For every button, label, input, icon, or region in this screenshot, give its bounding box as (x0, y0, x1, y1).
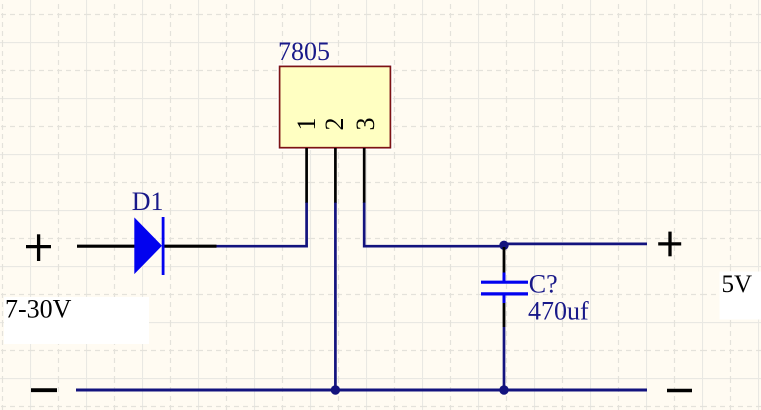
IC U1 7805 body (277, 64, 392, 150)
svg-text:C?: C? (529, 269, 558, 298)
terminal + (input) (26, 234, 51, 261)
svg-text:470uf: 470uf (528, 296, 589, 325)
C? top pin (503, 247, 506, 273)
svg-text:5V: 5V (722, 271, 753, 298)
input voltage label background (4, 297, 149, 344)
wire (217, 202, 307, 246)
diode D1 (134, 217, 163, 275)
wire (503, 327, 506, 390)
svg-text:7-30V: 7-30V (5, 294, 72, 323)
terminal - (input) (31, 388, 57, 392)
wire (364, 202, 504, 246)
terminal + (output) (658, 232, 681, 257)
junction node at pin2/bottom rail (331, 385, 340, 394)
svg-text:7805: 7805 (278, 37, 330, 66)
wire (504, 243, 647, 246)
junction node at C bottom (499, 385, 508, 394)
D1 anode pin (77, 245, 140, 248)
capacitor C? (481, 273, 528, 304)
U1 pin 2 (334, 148, 337, 203)
U1 pin 1 (305, 148, 308, 203)
C? bottom pin (503, 296, 506, 327)
svg-text:2: 2 (320, 118, 349, 131)
wire (76, 389, 647, 392)
wire (334, 202, 337, 390)
svg-text:D1: D1 (132, 187, 164, 216)
D1 cathode pin (163, 245, 217, 248)
U1 pin 3 (363, 148, 366, 203)
svg-text:1: 1 (292, 118, 321, 131)
output voltage label background (720, 272, 761, 320)
terminal - (output) (667, 389, 692, 393)
svg-text:3: 3 (351, 118, 380, 131)
junction node at C top (499, 241, 508, 250)
